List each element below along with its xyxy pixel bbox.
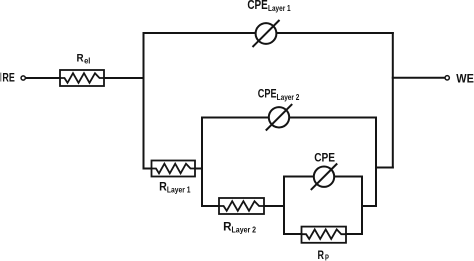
wire inner box top branch xyxy=(284,176,362,178)
svg-text:RE: RE xyxy=(2,71,14,85)
svg-text:CPE: CPE xyxy=(258,86,277,100)
label RE (partial glyph at edge) xyxy=(0,73,1,82)
svg-text:R: R xyxy=(77,52,84,64)
wire top rail xyxy=(144,32,393,34)
svg-text:P: P xyxy=(325,254,329,261)
wire node A vertical (top rail to R_Layer1 level) xyxy=(143,33,145,169)
wire R_Layer1 to node B xyxy=(195,168,202,170)
svg-text:CPE: CPE xyxy=(247,0,268,12)
resistor RLayer2 xyxy=(219,198,264,214)
wire RE terminal to R_el xyxy=(26,77,60,79)
svg-text:WE: WE xyxy=(456,72,474,86)
svg-text:Layer 1: Layer 1 xyxy=(268,4,291,13)
wire node B to R_Layer2 xyxy=(202,205,219,207)
wire inner tap xyxy=(362,205,376,207)
wire R_Layer2 to inner box xyxy=(264,205,284,207)
wire right vertical xyxy=(392,33,394,168)
wire node A to R_Layer1 xyxy=(144,168,152,170)
wire to WE terminal xyxy=(393,77,445,79)
svg-text:CPE: CPE xyxy=(314,150,335,164)
wire R_P to inner right vertical xyxy=(346,233,362,235)
wire node B vertical xyxy=(201,118,203,207)
wire R_el to node A xyxy=(104,77,144,79)
svg-text:Layer 2: Layer 2 xyxy=(277,93,300,102)
CPE element CPE_Layer2 xyxy=(266,104,292,130)
svg-text:el: el xyxy=(84,56,90,65)
wire inner box bottom to R_P xyxy=(284,233,302,235)
svg-text:R: R xyxy=(318,250,325,261)
wire CPE_Layer2 rail xyxy=(202,117,376,119)
svg-text:Layer 2: Layer 2 xyxy=(232,225,257,234)
resistor Rel xyxy=(60,70,104,86)
terminal WE xyxy=(445,76,449,80)
terminal RE xyxy=(21,76,25,80)
resistor RP xyxy=(302,227,347,243)
resistor RLayer1 xyxy=(152,161,196,177)
svg-text:Layer 1: Layer 1 xyxy=(167,186,191,195)
wire inner box right vertical xyxy=(361,177,363,235)
wire inner box left vertical xyxy=(283,177,285,235)
wire rail-right vertical xyxy=(375,118,377,207)
CPE element CPE (inner) xyxy=(311,164,337,190)
CPE element CPE_Layer1 xyxy=(253,20,280,47)
wire jog to right vertical xyxy=(376,167,393,169)
